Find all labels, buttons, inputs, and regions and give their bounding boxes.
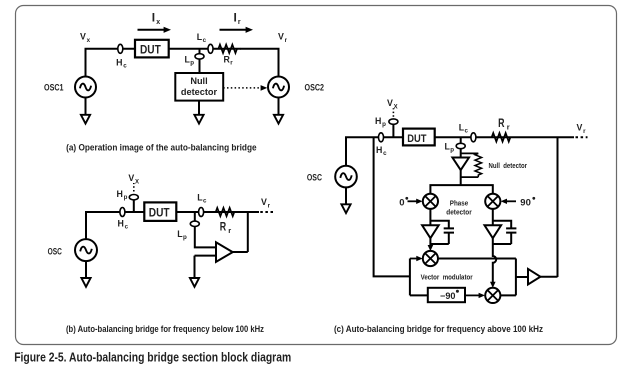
svg-text:detector: detector (446, 208, 471, 217)
svg-text:V: V (387, 98, 393, 108)
svg-text:c: c (383, 150, 387, 157)
svg-text:H: H (376, 145, 382, 155)
svg-text:V: V (278, 32, 284, 42)
svg-text:OSC1: OSC1 (44, 83, 64, 93)
svg-text:x: x (156, 19, 160, 26)
svg-text:DUT: DUT (140, 43, 161, 57)
svg-text:OSC: OSC (307, 172, 323, 182)
svg-text:p: p (183, 234, 187, 241)
svg-text:0: 0 (399, 197, 404, 208)
svg-text:V: V (80, 32, 86, 42)
svg-text:H: H (116, 58, 122, 68)
svg-text:detector: detector (181, 87, 218, 97)
svg-text:H: H (375, 116, 381, 126)
svg-text:I: I (152, 11, 155, 25)
svg-text:p: p (450, 147, 454, 154)
svg-text:Null: Null (190, 76, 207, 86)
svg-text:H: H (117, 189, 123, 199)
svg-text:r: r (507, 123, 510, 132)
svg-text:(a) Operation image of the aut: (a) Operation image of the auto-balancin… (66, 143, 257, 153)
svg-text:r: r (238, 19, 241, 26)
svg-text:c: c (203, 198, 207, 205)
svg-text:p: p (190, 60, 194, 67)
svg-text:DUT: DUT (149, 206, 170, 220)
svg-text:V: V (577, 123, 583, 133)
svg-text:p: p (382, 121, 386, 128)
svg-text:H: H (118, 219, 124, 229)
svg-text:Figure 2-5. Auto-balancing bri: Figure 2-5. Auto-balancing bridge sectio… (14, 349, 291, 364)
svg-text:X: X (135, 179, 139, 185)
svg-text:V: V (128, 173, 134, 183)
svg-text:x: x (87, 37, 91, 44)
svg-text:r: r (228, 226, 231, 235)
svg-text:c: c (203, 37, 207, 44)
svg-text:V: V (261, 197, 267, 207)
svg-text:I: I (234, 11, 237, 25)
svg-text:c: c (465, 128, 469, 135)
svg-text:90: 90 (520, 198, 531, 209)
svg-text:DUT: DUT (407, 133, 426, 145)
svg-text:R: R (220, 219, 227, 233)
svg-text:p: p (124, 194, 128, 201)
svg-text:(b) Auto-balancing bridge for: (b) Auto-balancing bridge for frequency … (66, 324, 264, 334)
svg-text:Phase: Phase (450, 199, 468, 208)
svg-text:R: R (498, 116, 505, 130)
svg-text:(c) Auto-balancing bridge for: (c) Auto-balancing bridge for frequency … (334, 324, 543, 334)
svg-text:c: c (125, 224, 129, 231)
svg-text:OSC: OSC (48, 246, 63, 256)
svg-text:X: X (394, 104, 398, 110)
svg-text:Null detector: Null detector (489, 161, 528, 170)
svg-text:−90: −90 (440, 291, 456, 301)
svg-text:OSC2: OSC2 (305, 83, 325, 93)
svg-text:c: c (123, 63, 127, 70)
svg-text:Vector modulator: Vector modulator (421, 273, 473, 282)
